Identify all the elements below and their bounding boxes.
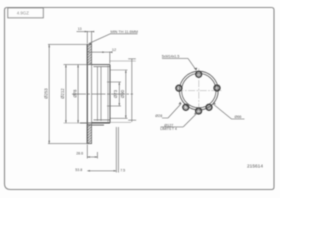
- bolt hole upper-right: [214, 85, 220, 91]
- dimension D90 line: [125, 70, 127, 118]
- svg-text:LIMITS T 4: LIMITS T 4: [160, 127, 177, 131]
- hub inner wall 2: [100, 67, 102, 121]
- svg-text:Ø66: Ø66: [235, 115, 242, 119]
- hub mounting face: [109, 65, 111, 123]
- hub ring inner circle: [182, 73, 216, 107]
- label 5xM14x1.5 underline: [162, 57, 188, 59]
- hub cap right edge: [131, 59, 133, 122]
- svg-text:MIN TH 11.6MM: MIN TH 11.6MM: [110, 30, 138, 34]
- svg-text:5xM14x1.5: 5xM14x1.5: [162, 55, 180, 59]
- svg-text:4.9GZ: 4.9GZ: [17, 11, 30, 16]
- svg-text:53.8: 53.8: [75, 168, 82, 172]
- dimension 13 extension lines: [86, 31, 88, 44]
- label D66 underline: [232, 118, 245, 120]
- hub inner wall: [96, 67, 98, 121]
- dimension D212 line: [65, 65, 67, 123]
- friction band upper (hatched): [87, 44, 91, 64]
- extension lines D90: [111, 69, 128, 71]
- svg-text:215614: 215614: [247, 164, 263, 170]
- hub cap top tick: [128, 58, 136, 60]
- dimension D203 line: [77, 65, 79, 123]
- friction band right face line: [91, 44, 93, 143]
- leader to bottom hole: [183, 113, 197, 127]
- svg-text:Ø212: Ø212: [60, 88, 65, 99]
- hub top chamfer line: [94, 66, 111, 68]
- bolt hole lower-left: [183, 104, 189, 110]
- stud extension lines: [115, 127, 117, 173]
- dimension D73 line: [118, 82, 120, 106]
- svg-text:28.6: 28.6: [76, 152, 83, 156]
- dimension 13 line: [77, 31, 93, 33]
- bolt hole lower edge (section through hole): [87, 124, 104, 126]
- view centerline horizontal: [177, 90, 222, 92]
- leader to ring lower-right: [213, 104, 232, 119]
- extension lines D73: [107, 81, 121, 83]
- bolt hole top: [196, 71, 202, 77]
- dimension 12 line: [89, 51, 113, 53]
- label D28 leader: [162, 117, 168, 119]
- hub cap bottom tick: [128, 119, 136, 121]
- svg-text:Ø73: Ø73: [113, 89, 118, 98]
- dimension 28.6 extension lines: [86, 145, 88, 159]
- hub cap bottom edge extension: [110, 121, 131, 123]
- bolt hole bottom: [196, 108, 202, 114]
- friction band left face line: [86, 44, 88, 143]
- label D127 underline: [161, 126, 184, 128]
- dimension 53.8 line: [87, 170, 116, 172]
- svg-text:Ø90: Ø90: [120, 89, 125, 98]
- title box: [8, 8, 44, 18]
- hub ring outer circle: [179, 71, 218, 110]
- extension line hub bottom (to left dims): [64, 122, 81, 124]
- hub bottom outer edge: [92, 122, 110, 124]
- svg-text:Ø28: Ø28: [155, 114, 162, 118]
- dimension D253 line: [48, 44, 50, 143]
- dimension 28.6 line: [87, 156, 97, 158]
- view centerline vertical: [198, 69, 200, 114]
- hub bottom chamfer line: [94, 119, 111, 121]
- leader to top hole: [188, 58, 196, 70]
- hub top outer edge: [92, 64, 110, 66]
- svg-text:7.5: 7.5: [120, 168, 125, 172]
- friction band lower (hatched): [87, 125, 91, 144]
- centerline: [72, 93, 133, 95]
- bolt hole upper-left: [176, 85, 182, 91]
- hub recess face: [107, 66, 109, 123]
- hub cap top step line: [109, 60, 135, 62]
- note MIN TH leader: [89, 34, 111, 44]
- extension line hub top (to left dims): [64, 64, 92, 66]
- drawing frame border: [5, 8, 275, 190]
- dimension 12 extension lines: [109, 52, 111, 64]
- svg-text:13: 13: [78, 27, 82, 31]
- svg-text:12: 12: [112, 48, 116, 52]
- extension line disc bottom: [48, 143, 92, 145]
- svg-text:Ø78: Ø78: [72, 89, 77, 98]
- extension line disc top: [48, 43, 87, 45]
- svg-text:Ø253: Ø253: [44, 88, 49, 99]
- bolt hole lower-right: [206, 104, 212, 110]
